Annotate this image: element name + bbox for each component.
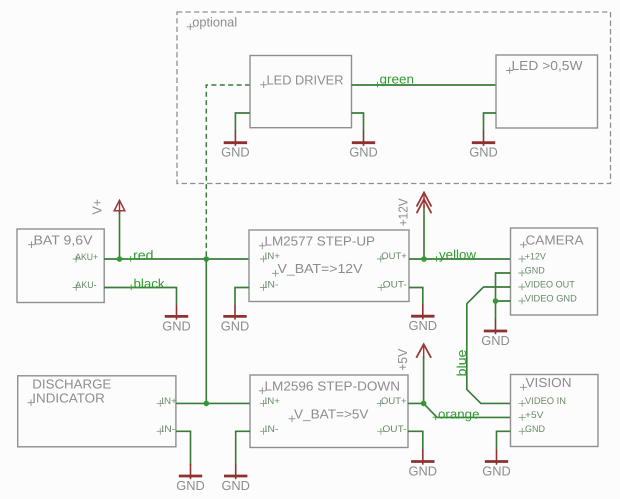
pin GND (VISION) <box>519 424 546 435</box>
ground GND (battery minus) <box>162 304 191 333</box>
pin GND (CAMERA) <box>518 266 545 277</box>
svg-text:GND: GND <box>349 145 378 160</box>
svg-text:LM2596 STEP-DOWN: LM2596 STEP-DOWN <box>265 379 401 394</box>
svg-text:blue: blue <box>454 350 469 377</box>
svg-text:GND: GND <box>162 318 191 333</box>
svg-text:IN+: IN+ <box>161 396 177 407</box>
svg-text:GND: GND <box>409 464 438 479</box>
pin AKU- (BAT) <box>73 280 97 291</box>
wire: dashed optional feed from V_BAT node to LED DRIVER input <box>206 85 250 258</box>
svg-text:black: black <box>134 276 165 291</box>
svg-text:+5V: +5V <box>525 410 544 421</box>
pin OUT- (LM2596) <box>377 424 406 435</box>
ground GND (LM2577 input) <box>221 304 250 333</box>
svg-text:IN+: IN+ <box>265 396 281 407</box>
ground GND (discharge indicator) <box>176 464 205 493</box>
wire: VISION GND to ground <box>497 431 511 450</box>
svg-text:GND: GND <box>221 478 250 493</box>
wire: CAMERA GND and VIDEO GND to ground <box>496 273 511 319</box>
svg-text:IN-: IN- <box>265 280 279 291</box>
optional region frame (dashed) <box>177 12 611 184</box>
ground GND (LED DRIVER right) <box>349 131 378 160</box>
svg-text:OUT+: OUT+ <box>381 251 407 262</box>
pin VIDEO IN (VISION) <box>519 396 567 407</box>
pin IN- (LM2577) <box>260 280 279 291</box>
label: green <box>374 72 414 88</box>
label: red <box>128 248 154 263</box>
wire net: DISCHARGE IN+ to LM2596 IN+ <box>176 402 250 404</box>
supply symbol +12V (double chevron) <box>417 193 432 214</box>
pin IN+ (LM2596) <box>260 396 281 407</box>
svg-text:red: red <box>133 248 154 263</box>
module VISION <box>511 375 599 447</box>
svg-text:GND: GND <box>525 266 545 277</box>
module CAMERA <box>511 228 598 315</box>
label: black <box>128 276 165 291</box>
svg-text:IN-: IN- <box>265 424 279 435</box>
svg-text:V_BAT=>12V: V_BAT=>12V <box>278 261 363 276</box>
wire: LM2577 OUT- to ground <box>409 288 423 305</box>
svg-text:OUT-: OUT- <box>383 424 407 435</box>
pin OUT- (LM2577) <box>378 280 407 291</box>
label: orange <box>433 406 480 421</box>
ground GND (LM2577 output) <box>409 304 438 333</box>
wire: LED DRIVER left pin to ground <box>235 113 250 131</box>
svg-text:+5V: +5V <box>395 348 410 370</box>
junction node camera ground tie <box>493 298 499 304</box>
svg-text:GND: GND <box>482 464 511 479</box>
wire net red: BAT AKU+ to LM2577 IN+ <box>104 258 249 260</box>
pin IN+ (DISCHARGE INDICATOR) <box>157 396 178 407</box>
svg-text:GND: GND <box>409 318 438 333</box>
wire net green: LED DRIVER output to LED <box>352 84 497 86</box>
svg-text:OUT-: OUT- <box>383 280 407 291</box>
supply symbol V+ <box>114 200 125 214</box>
svg-text:GND: GND <box>221 318 250 333</box>
svg-text:INDICATOR: INDICATOR <box>32 390 105 405</box>
pin VIDEO OUT (CAMERA) <box>518 280 575 291</box>
svg-text:LED DRIVER: LED DRIVER <box>267 73 344 88</box>
ground GND (CAMERA) <box>481 319 510 348</box>
svg-text:yellow: yellow <box>439 247 477 262</box>
svg-text:V_BAT=>5V: V_BAT=>5V <box>294 407 369 422</box>
svg-text:GND: GND <box>176 478 205 493</box>
svg-text:green: green <box>380 72 415 87</box>
svg-text:GND: GND <box>221 145 250 160</box>
module LM2596 STEP-DOWN converter <box>250 375 408 448</box>
svg-text:GND: GND <box>525 424 545 435</box>
module LED DRIVER <box>250 56 352 128</box>
svg-text:GND: GND <box>469 145 498 160</box>
svg-text:AKU+: AKU+ <box>75 252 98 263</box>
wire: V_BAT trunk from red net down to step-down input net <box>205 259 207 403</box>
value label: V_BAT=&gt;5V <box>289 407 369 423</box>
module BAT 9,6V (battery) <box>17 229 104 303</box>
junction node V_BAT tap at step-down input <box>204 401 210 407</box>
label: V+ <box>90 199 105 215</box>
module LM2577 STEP-UP converter <box>249 230 409 302</box>
svg-text:orange: orange <box>438 406 480 421</box>
pin OUT+ (LM2577) <box>377 251 407 262</box>
label: yellow <box>434 247 477 262</box>
svg-text:VIDEO GND: VIDEO GND <box>525 294 577 305</box>
wire: riser from yellow net to +12V supply arrow <box>423 205 425 259</box>
wire: LED DRIVER right pin to ground <box>352 113 364 131</box>
svg-text:LM2577 STEP-UP: LM2577 STEP-UP <box>265 234 376 249</box>
junction node +12V tap on yellow net <box>421 256 427 262</box>
wire: LM2596 OUT- to ground <box>408 431 423 450</box>
ground GND (LM2596 output) <box>409 449 438 478</box>
wire: DISCHARGE IN- to ground <box>176 431 191 465</box>
wire net blue: CAMERA VIDEO OUT to VISION VIDEO IN <box>467 287 511 403</box>
svg-text:LED >0,5W: LED >0,5W <box>512 58 584 73</box>
ground GND (VISION) <box>482 449 511 478</box>
wire: riser from red net to V+ supply <box>119 211 121 259</box>
pin OUT+ (LM2596) <box>377 396 407 407</box>
svg-text:AKU-: AKU- <box>75 280 97 291</box>
wire: LED cathode to ground <box>484 113 497 131</box>
svg-text:VISION: VISION <box>526 375 572 390</box>
ground GND (LED DRIVER left) <box>221 131 250 160</box>
svg-text:VIDEO IN: VIDEO IN <box>525 396 566 407</box>
pin +5V (VISION) <box>519 410 545 421</box>
junction node V_BAT / optional feed tap <box>204 256 210 262</box>
svg-text:VIDEO OUT: VIDEO OUT <box>525 280 575 291</box>
svg-text:+12V: +12V <box>396 198 411 226</box>
pin AKU+ (BAT) <box>73 252 99 263</box>
pin IN- (DISCHARGE INDICATOR) <box>157 424 176 435</box>
svg-text:IN-: IN- <box>161 424 175 435</box>
svg-text:+12V: +12V <box>525 252 547 263</box>
pin IN- (LM2596) <box>260 424 279 435</box>
svg-text:BAT 9,6V: BAT 9,6V <box>34 233 93 248</box>
wire: riser from orange net to +5V supply arrow <box>423 356 425 403</box>
wire net orange: LM2596 OUT+ to VISION +5V <box>408 403 511 417</box>
junction node +5V tap on orange net <box>421 401 427 407</box>
module DISCHARGE INDICATOR <box>18 376 176 447</box>
svg-text:V+: V+ <box>90 199 105 215</box>
supply symbol +5V (chevron) <box>416 344 431 358</box>
wire net yellow: LM2577 OUT+ to CAMERA +12V <box>409 258 511 260</box>
svg-text:optional: optional <box>192 15 237 30</box>
ground GND (LM2596 input) <box>221 464 250 493</box>
pin VIDEO GND (CAMERA) <box>518 294 577 305</box>
svg-text:IN+: IN+ <box>265 251 281 262</box>
ground GND (LED) <box>469 131 498 160</box>
label: optional <box>187 15 238 31</box>
svg-text:CAMERA: CAMERA <box>526 233 584 248</box>
svg-text:OUT+: OUT+ <box>381 396 407 407</box>
wire net black: BAT AKU- to ground <box>104 288 177 305</box>
wire: LM2577 IN- to ground <box>235 288 249 305</box>
module LED >0,5W <box>496 55 598 128</box>
svg-text:GND: GND <box>481 333 510 348</box>
value label: V_BAT=&gt;12V <box>272 261 363 277</box>
pin +12V (CAMERA) <box>518 252 546 263</box>
wire: LM2596 IN- to ground <box>236 431 250 465</box>
pin IN+ (LM2577) <box>260 251 281 262</box>
junction node V+ tap on red net <box>117 256 123 262</box>
